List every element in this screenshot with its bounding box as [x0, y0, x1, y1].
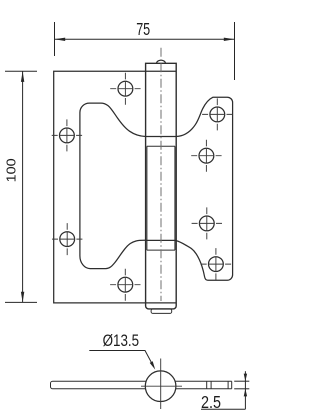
dimension 75 extension line left	[54, 22, 56, 56]
knuckle middle segment left edge	[146, 146, 148, 250]
left leaf outline	[54, 71, 177, 303]
left leaf cutout	[80, 103, 146, 269]
screw hole H3	[52, 223, 82, 255]
knuckle segment line lower B	[147, 249, 175, 251]
dimension 2.5 leader	[201, 408, 245, 410]
screw hole H8	[201, 248, 231, 280]
dimension 100 line	[22, 71, 24, 302]
dimension 2.5 line upper	[244, 371, 246, 389]
dimension 2.5 extension line top	[234, 380, 249, 382]
dimension 100 arrow top	[21, 71, 24, 82]
screw hole H2	[52, 119, 82, 151]
dimension 100 extension line top	[5, 70, 37, 72]
side view bar segment tick 1	[206, 381, 208, 389]
svg-text:75: 75	[136, 19, 150, 39]
screw hole H7	[192, 207, 222, 239]
side view crosshair horizontal	[141, 385, 182, 387]
dimension 2.5 arrow up	[244, 389, 247, 397]
dimension 2.5 line lower	[244, 389, 246, 409]
dimension 75 extension line right	[234, 22, 236, 80]
dimension 75 line	[55, 38, 235, 40]
side view centerline vertical	[160, 359, 162, 410]
knuckle pin centerline	[160, 48, 162, 301]
knuckle segment line lower A	[146, 239, 177, 241]
dimension 2.5 arrow down	[244, 374, 247, 382]
knuckle pin dome	[156, 60, 165, 63]
dimension 2.5 extension line bottom	[234, 388, 249, 390]
side view knuckle circle	[145, 371, 176, 402]
screw hole H4	[110, 269, 140, 301]
svg-text:2.5: 2.5	[201, 392, 221, 412]
svg-text:Ø13.5: Ø13.5	[103, 331, 140, 350]
dimension 100 arrow bottom	[21, 292, 24, 303]
screw hole H6	[191, 140, 221, 172]
dimension 100 extension line bottom	[5, 301, 37, 303]
dimension 75 arrow right	[224, 38, 235, 41]
svg-text:100: 100	[4, 158, 19, 182]
side view leaf bar right part	[175, 381, 232, 389]
knuckle segment line upper B	[147, 145, 175, 147]
side view bar segment tick 2	[210, 381, 212, 389]
knuckle middle segment right edge	[174, 146, 176, 250]
right leaf outline	[176, 97, 233, 280]
side view bar segment tick 3	[227, 381, 229, 389]
knuckle segment line upper A	[146, 136, 177, 138]
side view leaf bar	[51, 381, 147, 389]
screw hole H1	[110, 73, 140, 105]
screw hole H5	[202, 98, 232, 130]
dimension 75 arrow left	[55, 38, 66, 41]
leader Ø13.5 arrow	[150, 361, 156, 369]
leader Ø13.5 line	[89, 351, 153, 367]
knuckle outline	[146, 63, 177, 309]
knuckle pin bottom tip	[151, 309, 172, 314]
